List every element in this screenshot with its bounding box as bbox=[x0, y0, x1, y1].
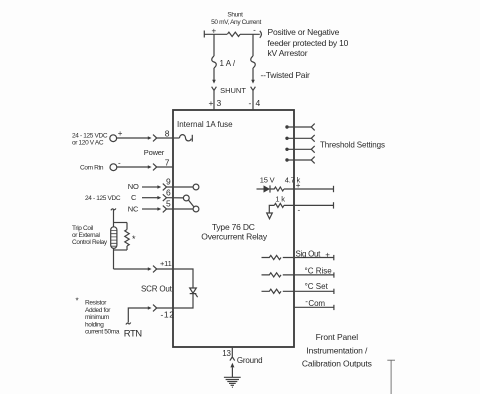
wire coil branch top bbox=[114, 222, 128, 224]
svg-text:1 k: 1 k bbox=[275, 194, 285, 203]
label Positive or Negative feeder protected by 10 kV Arrestor bbox=[268, 27, 349, 58]
label 24 - 125 VDC / or 120 VAC bbox=[72, 133, 108, 147]
svg-text:Type 76 DC: Type 76 DC bbox=[212, 222, 255, 232]
svg-text:Com Rtn: Com Rtn bbox=[80, 165, 104, 172]
label Front Panel Instrumentation / Calibration Outputs bbox=[302, 332, 372, 368]
connector chevron pin12 bbox=[153, 305, 157, 312]
svg-text:Control Relay: Control Relay bbox=[72, 239, 108, 246]
RTN open end mark bbox=[126, 323, 131, 325]
svg-text:-12: -12 bbox=[161, 309, 175, 319]
svg-text:current 50ma: current 50ma bbox=[85, 329, 120, 336]
partial element far right bbox=[387, 360, 395, 394]
connector chevron NC bbox=[163, 206, 167, 213]
resistor C rise bbox=[262, 273, 281, 277]
trip coil L1 bbox=[111, 227, 117, 249]
svg-text:C: C bbox=[131, 193, 137, 202]
svg-text:3: 3 bbox=[217, 98, 222, 108]
connector chevron right (female) bbox=[251, 87, 256, 91]
svg-text:+: + bbox=[209, 98, 214, 108]
trip coil open end mark bbox=[111, 208, 116, 210]
connector arrow right (male) bbox=[251, 80, 255, 84]
svg-text:--Twisted Pair: --Twisted Pair bbox=[261, 70, 311, 80]
sig out end tick bbox=[333, 255, 335, 260]
open ground triangle bbox=[267, 213, 273, 219]
label Trip Coil or External Control Relay bbox=[72, 225, 108, 246]
label Type 76 DC Overcurrent Relay bbox=[201, 222, 268, 242]
wire shunt right drop bbox=[251, 34, 256, 80]
connector arrow NC bbox=[157, 207, 161, 211]
svg-text:8: 8 bbox=[165, 128, 170, 138]
svg-text:1 A /: 1 A / bbox=[220, 59, 236, 68]
diode D1 15V bbox=[257, 185, 271, 192]
wire chevron to box pin11 bbox=[157, 268, 173, 270]
wire pin 5 bbox=[167, 208, 194, 210]
wire NC arrow bbox=[142, 208, 158, 210]
wire 1k corner bbox=[269, 205, 274, 212]
wire into pin 4 bbox=[252, 90, 254, 110]
svg-text:*: * bbox=[132, 234, 136, 244]
svg-text:-: - bbox=[253, 26, 256, 35]
+ output end tick bbox=[333, 186, 335, 192]
connector chevron pin7 bbox=[153, 164, 157, 171]
svg-text:°C Rise: °C Rise bbox=[305, 267, 333, 276]
svg-text:Calibration Outputs: Calibration Outputs bbox=[302, 359, 372, 369]
resistor R* parallel bbox=[125, 223, 129, 251]
svg-text:or 120 V AC: or 120 V AC bbox=[72, 140, 104, 147]
svg-text:Sig Out: Sig Out bbox=[296, 249, 322, 258]
svg-text:SHUNT: SHUNT bbox=[220, 86, 246, 95]
svg-text:RTN: RTN bbox=[124, 328, 142, 339]
SCR Q1 bbox=[190, 288, 198, 297]
svg-text:Threshold Settings: Threshold Settings bbox=[320, 140, 385, 149]
svg-text:Power: Power bbox=[144, 148, 165, 157]
connector chevron NO bbox=[163, 184, 167, 191]
terminal circle + supply bbox=[110, 135, 117, 142]
svg-text:15 V: 15 V bbox=[260, 175, 275, 184]
svg-text:9: 9 bbox=[166, 177, 171, 187]
wire SCR loop top bbox=[173, 269, 193, 288]
wire chevron to box pin8 bbox=[157, 137, 173, 139]
contact arm C-NC bbox=[188, 200, 193, 207]
svg-text:holding: holding bbox=[85, 321, 104, 328]
connector arrow pin12 bbox=[148, 306, 152, 310]
wire C arrow bbox=[142, 197, 158, 199]
svg-text:NO: NO bbox=[128, 182, 139, 191]
contact circle NC bbox=[193, 206, 199, 212]
contact circle NO bbox=[193, 184, 199, 190]
svg-text:Added for: Added for bbox=[85, 307, 111, 314]
svg-text:°C Set: °C Set bbox=[305, 282, 329, 291]
svg-text:Ground: Ground bbox=[237, 356, 262, 365]
wire to pin 11 bbox=[114, 268, 149, 270]
connector chevron pin11 bbox=[153, 266, 157, 273]
connector arrow pin7 bbox=[148, 165, 152, 169]
svg-text:Resistor: Resistor bbox=[85, 300, 107, 307]
wire SCR loop bottom bbox=[173, 294, 193, 308]
threshold line 3 bbox=[285, 146, 314, 153]
Com end tick bbox=[333, 305, 335, 310]
pin13 chevron (female) bbox=[230, 357, 235, 361]
pin 4 label bbox=[249, 98, 261, 108]
connector arrow pin8 bbox=[148, 136, 152, 140]
relay main box U1 bbox=[173, 110, 294, 347]
wire pin 6 bbox=[167, 197, 184, 199]
svg-text:+11: +11 bbox=[160, 259, 172, 268]
wire pin 7 bbox=[117, 166, 149, 168]
svg-text:*: * bbox=[76, 297, 79, 306]
connector arrow left (male) bbox=[212, 80, 216, 84]
wire into pin 3 bbox=[213, 90, 215, 110]
earth ground symbol bbox=[224, 377, 241, 387]
svg-text:Positive or Negative: Positive or Negative bbox=[268, 27, 340, 37]
svg-text:feeder protected by 10: feeder protected by 10 bbox=[268, 38, 349, 48]
svg-text:NC: NC bbox=[128, 204, 139, 213]
connector arrow pin11 bbox=[148, 267, 152, 271]
wire RTN bbox=[128, 308, 148, 323]
svg-text:SCR Out: SCR Out bbox=[141, 285, 173, 294]
resistor 1k bbox=[274, 203, 284, 207]
wire pin 9 bbox=[167, 186, 194, 188]
ground arrow (male) bbox=[230, 363, 234, 368]
svg-text:13: 13 bbox=[222, 349, 231, 358]
svg-text:+: + bbox=[118, 129, 123, 138]
contact circle C bbox=[183, 195, 189, 201]
svg-text:Com: Com bbox=[308, 299, 325, 308]
svg-text:7: 7 bbox=[165, 158, 170, 168]
svg-text:+: + bbox=[325, 251, 330, 260]
connector chevron left (female) bbox=[212, 87, 217, 91]
connector arrow NO bbox=[157, 185, 161, 189]
wire NO arrow bbox=[142, 186, 158, 188]
wire chevron to box pin7 bbox=[157, 166, 173, 168]
pin 3 label bbox=[209, 98, 222, 108]
C set end tick bbox=[333, 289, 335, 294]
svg-text:24 - 125 VDC: 24 - 125 VDC bbox=[85, 195, 121, 202]
resistor sig out bbox=[262, 255, 281, 259]
wire coil branch bottom bbox=[114, 249, 128, 251]
wire Com bbox=[294, 306, 334, 308]
pin 13 stub bbox=[231, 347, 233, 357]
terminal circle com bbox=[110, 164, 117, 171]
label Sig Out + bbox=[296, 249, 331, 259]
svg-text:Internal 1A fuse: Internal 1A fuse bbox=[177, 120, 233, 129]
shunt resistor bbox=[204, 31, 261, 38]
svg-text:kV Arrestor: kV Arrestor bbox=[268, 48, 308, 58]
svg-text:Shunt: Shunt bbox=[227, 12, 243, 19]
wire C set bbox=[283, 290, 334, 292]
wire sig out bbox=[283, 257, 334, 259]
svg-text:-: - bbox=[298, 206, 301, 215]
svg-text:24 - 125 VDC: 24 - 125 VDC bbox=[72, 133, 108, 140]
wire ground bbox=[231, 367, 233, 377]
threshold line 4 bbox=[285, 157, 314, 164]
wire coil bottom bbox=[113, 248, 115, 269]
svg-text:-: - bbox=[249, 98, 252, 108]
connector chevron C bbox=[163, 194, 167, 201]
svg-text:6: 6 bbox=[166, 188, 171, 198]
C rise end tick bbox=[333, 272, 335, 277]
resistor C set bbox=[262, 289, 281, 293]
wire C rise bbox=[283, 274, 334, 276]
resistor 4.7k bbox=[270, 187, 284, 191]
svg-text:Trip Coil: Trip Coil bbox=[72, 225, 94, 232]
threshold line 2 bbox=[285, 135, 314, 142]
fuse F1 internal bbox=[173, 135, 192, 142]
wire coil top bbox=[113, 210, 115, 227]
connector arrow C bbox=[157, 196, 161, 200]
svg-text:minimum: minimum bbox=[85, 314, 109, 321]
svg-text:-: - bbox=[118, 158, 121, 167]
- output end tick bbox=[333, 202, 335, 208]
wire - output bbox=[284, 204, 334, 206]
wire pin 12 out bbox=[157, 307, 173, 309]
svg-text:Instrumentation /: Instrumentation / bbox=[306, 346, 368, 356]
footnote resistor added bbox=[76, 297, 120, 336]
wire shunt left drop bbox=[212, 34, 217, 80]
wire + output bbox=[284, 188, 334, 190]
svg-text:Front Panel: Front Panel bbox=[316, 332, 359, 342]
connector chevron pin8 bbox=[153, 135, 157, 142]
svg-text:5: 5 bbox=[166, 199, 171, 209]
svg-text:+: + bbox=[211, 27, 216, 36]
svg-text:4: 4 bbox=[256, 98, 261, 108]
svg-text:+: + bbox=[296, 181, 301, 190]
svg-text:Overcurrent Relay: Overcurrent Relay bbox=[201, 232, 268, 242]
threshold line 1 bbox=[285, 124, 314, 131]
wire pin 8 bbox=[116, 137, 148, 139]
